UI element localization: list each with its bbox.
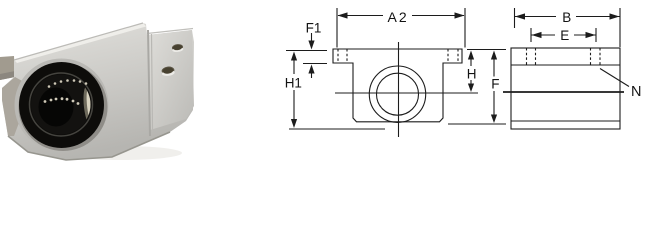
- svg-text:H: H: [467, 67, 477, 82]
- svg-text:N: N: [631, 84, 641, 100]
- svg-text:F1: F1: [306, 21, 322, 36]
- svg-text:A2: A2: [388, 9, 409, 25]
- svg-text:H1: H1: [285, 76, 302, 91]
- svg-text:E: E: [560, 28, 569, 43]
- svg-text:B: B: [562, 10, 571, 25]
- svg-text:F: F: [491, 77, 499, 92]
